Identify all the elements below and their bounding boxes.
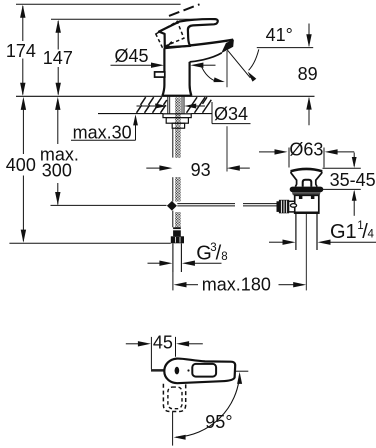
svg-text:max.30: max.30	[73, 122, 132, 142]
waste tailpipe G1 1/4	[296, 214, 317, 291]
countertop deck with hatching	[98, 97, 212, 113]
lever handle	[159, 19, 218, 48]
svg-text:95°: 95°	[205, 412, 232, 432]
dim max.180 (rod span)	[174, 274, 307, 294]
svg-text:300: 300	[42, 160, 72, 180]
lever swung position (dashed)	[163, 384, 185, 412]
svg-text:35-45: 35-45	[330, 170, 376, 190]
supply hose middle (braided)	[175, 177, 181, 201]
lever centerline	[172, 412, 174, 446]
ref line deck level	[16, 95, 315, 97]
ref line hose end 400	[9, 242, 170, 244]
dim 400 (hose length)	[6, 97, 36, 243]
rod clamp bracket	[289, 201, 297, 212]
svg-text:400: 400	[6, 155, 36, 175]
knurled adjusting knob	[277, 200, 290, 214]
waste seal band	[292, 192, 321, 195]
dim 41&#176; (spout angle)	[201, 25, 313, 172]
waste body with overflow slots	[295, 195, 319, 213]
pop-up rod reference line	[51, 204, 167, 206]
mounting washer	[163, 114, 191, 118]
dim 45 (top view width)	[126, 333, 203, 370]
spout tip (top view)	[151, 369, 165, 372]
dim 89 (spout height)	[298, 24, 318, 126]
svg-text:174: 174	[6, 41, 36, 61]
hose end fitting G3/8 nut	[171, 227, 184, 243]
waste plug cap	[291, 169, 323, 187]
dim &#216;63 (waste flange)	[259, 139, 354, 167]
svg-text:147: 147	[43, 48, 73, 68]
dim 147 (lever height)	[43, 20, 73, 96]
spout with aerator tip	[165, 40, 234, 62]
rod ball joint	[167, 201, 177, 211]
waste seat flange	[290, 187, 324, 193]
dim max.300	[40, 97, 79, 205]
svg-text:89: 89	[298, 64, 318, 84]
svg-text:Ø45: Ø45	[115, 46, 149, 66]
faucet top view with lever	[164, 359, 235, 384]
dim 93 (spout reach)	[146, 160, 250, 180]
ref line top (lever raised height)	[16, 3, 181, 5]
dim 174 (overall height)	[6, 5, 36, 96]
ref line lever height 147	[51, 18, 215, 20]
handle raised position (dashed)	[156, 21, 184, 47]
svg-text:93: 93	[191, 160, 211, 180]
supply hose lower (braided)	[175, 212, 181, 227]
supply hose upper (braided)	[175, 98, 181, 158]
body end tick	[235, 370, 248, 372]
svg-text:Ø63: Ø63	[289, 139, 323, 159]
dim G1 1/4 (waste thread)	[269, 220, 376, 245]
G3/8 connection tube	[173, 243, 182, 290]
threaded shank in deck	[168, 97, 184, 114]
dim 35-45 (basin thickness)	[317, 153, 376, 216]
dim max.30 (deck thickness)	[71, 114, 138, 142]
svg-text:G1: G1	[330, 221, 357, 243]
horizontal pop-up rod	[177, 204, 276, 206]
svg-text:4: 4	[368, 229, 375, 241]
shank collar	[172, 123, 184, 128]
body tab	[155, 72, 165, 77]
lever tip raised (dashed)	[169, 4, 200, 16]
svg-text:8: 8	[221, 251, 227, 263]
faucet body column	[162, 48, 192, 96]
dim G3/8 (supply thread)	[148, 242, 228, 266]
svg-text:41°: 41°	[266, 25, 293, 45]
mounting nut	[166, 118, 188, 124]
dim &#216;45 (body diameter)	[111, 46, 216, 68]
dim &#216;34 (shank hole)	[137, 102, 251, 124]
svg-text:45: 45	[153, 333, 173, 353]
dim 95&#176; (swivel arc)	[174, 372, 243, 440]
svg-text:max.180: max.180	[202, 274, 271, 294]
svg-text:Ø34: Ø34	[214, 104, 248, 124]
